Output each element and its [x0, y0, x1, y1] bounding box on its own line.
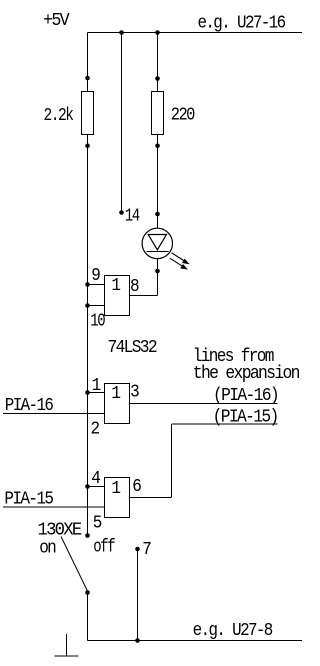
- svg-text:2.2k: 2.2k: [44, 106, 74, 126]
- svg-text:10: 10: [90, 312, 105, 332]
- wire pin 3 output to expansion: [130, 403, 278, 405]
- junction node pin 10: [85, 303, 90, 308]
- resistor 2.2k body: [82, 92, 94, 135]
- junction node pin7/ground rail: [135, 638, 140, 643]
- resistor 2.2k terminal bottom: [85, 143, 90, 148]
- resistor 2.2k terminal top: [85, 76, 90, 81]
- resistor 220 terminal top: [155, 76, 160, 81]
- svg-text:7: 7: [142, 540, 150, 560]
- svg-text:(PIA-15): (PIA-15): [213, 408, 278, 428]
- svg-text:5: 5: [93, 514, 102, 534]
- LED D1 anode terminal: [155, 212, 160, 217]
- wire pin 6 output: [130, 497, 172, 499]
- wire pin 10 stub: [88, 305, 105, 307]
- or-gate U1b body: [105, 384, 130, 424]
- wire pin 8 output to LED: [130, 295, 158, 297]
- switch contact off (pin 7): [135, 547, 140, 552]
- junction node pin 1: [85, 390, 90, 395]
- wire switch pivot to ground rail: [87, 593, 89, 641]
- LED D1 circle: [142, 228, 172, 258]
- wire bottom ground rail: [88, 640, 303, 642]
- wire main vertical bus middle: [87, 135, 89, 536]
- ground symbol bar: [55, 655, 79, 657]
- svg-text:1: 1: [111, 384, 120, 404]
- svg-text:on: on: [39, 539, 55, 559]
- svg-text:3: 3: [130, 383, 139, 403]
- svg-text:220: 220: [171, 106, 195, 126]
- or-gate U1a body: [105, 276, 130, 316]
- resistor 220 body: [152, 92, 164, 135]
- LED light arrow 1: [172, 253, 190, 264]
- wire (PIA-15) vertical drop: [171, 424, 173, 498]
- svg-text:1: 1: [111, 479, 120, 499]
- wire (PIA-15) horizontal: [172, 423, 278, 425]
- wire PIA-15 into pin 5: [3, 506, 105, 508]
- svg-text:+5V: +5V: [43, 11, 70, 31]
- wire pin 7 to ground rail: [137, 549, 139, 641]
- svg-text:e.g. U27-16: e.g. U27-16: [198, 14, 286, 34]
- svg-text:8: 8: [130, 277, 139, 297]
- wire PIA-16 into pin 2: [3, 413, 105, 415]
- svg-text:74LS32: 74LS32: [108, 338, 158, 358]
- wire LED cathode down: [157, 259, 159, 296]
- svg-text:e.g. U27-8: e.g. U27-8: [193, 621, 273, 641]
- wire top +5V rail: [88, 32, 303, 34]
- svg-text:1: 1: [92, 376, 101, 396]
- svg-text:2: 2: [91, 420, 100, 440]
- svg-text:(PIA-16): (PIA-16): [213, 386, 278, 406]
- resistor 220 terminal bottom: [155, 144, 160, 149]
- LED light arrow 2: [170, 258, 188, 269]
- svg-text:9: 9: [91, 266, 100, 286]
- junction node pin 4: [85, 484, 90, 489]
- svg-text:14: 14: [125, 207, 140, 227]
- wire pin 1 stub: [88, 392, 105, 394]
- wire LED branch vertical upper: [157, 33, 159, 92]
- wire LED branch resistor to LED: [157, 135, 159, 229]
- svg-text:6: 6: [132, 477, 141, 497]
- wire main vertical bus upper: [87, 33, 89, 92]
- junction node pin 9: [85, 282, 90, 287]
- or-gate U1c body: [105, 478, 130, 518]
- LED D1 cathode bar: [146, 251, 168, 253]
- LED D1 triangle: [148, 235, 166, 250]
- junction node 14-branch on +5V rail: [119, 30, 124, 35]
- terminal pin 14: [119, 210, 124, 215]
- junction node LED branch on +5V rail: [155, 30, 160, 35]
- LED D1 cathode terminal: [155, 269, 160, 274]
- svg-text:off: off: [93, 538, 115, 558]
- wire 14-branch vertical: [121, 33, 123, 213]
- switch contact on (bus end): [85, 533, 90, 538]
- svg-text:4: 4: [91, 469, 100, 489]
- wire pin 4 stub: [88, 486, 105, 488]
- switch pivot: [85, 590, 90, 595]
- svg-text:the expansion: the expansion: [193, 364, 299, 384]
- ground symbol stem: [66, 634, 68, 656]
- svg-text:1: 1: [111, 276, 120, 296]
- switch lever: [61, 537, 88, 592]
- wire pin 9 stub: [88, 284, 105, 286]
